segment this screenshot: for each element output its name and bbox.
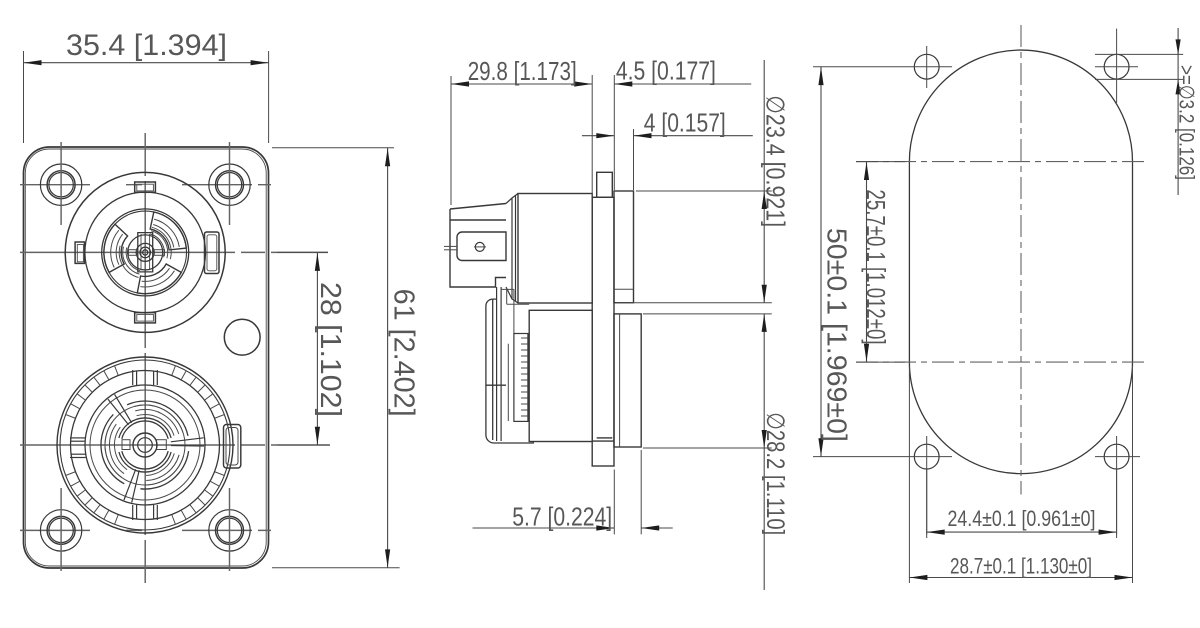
dim 28 arrows [315, 253, 320, 271]
svg-text:28.7±0.1 [1.130±0]: 28.7±0.1 [1.130±0] [950, 554, 1092, 579]
dim 61 extension lines [272, 147, 394, 149]
hole top-right [1095, 29, 1138, 103]
bottom connector latch 3h [224, 425, 241, 469]
dim 29.8 line [451, 83, 592, 85]
svg-text:35.4 [1.394]: 35.4 [1.394] [66, 29, 227, 62]
svg-text:61 [2.402]: 61 [2.402] [388, 289, 420, 417]
dim 35.4 arrows [24, 60, 42, 65]
svg-text:∅28.2 [1.110]: ∅28.2 [1.110] [761, 412, 789, 535]
svg-text:5.7 [0.224]: 5.7 [0.224] [512, 502, 612, 532]
hole bottom-left [813, 436, 952, 534]
dim Ø3.2 ext lines [1095, 53, 1183, 55]
stadium cutout [909, 50, 1132, 474]
svg-text:∅23.4 [0.921]: ∅23.4 [0.921] [761, 95, 789, 227]
svg-text:4 [0.157]: 4 [0.157] [644, 108, 726, 138]
bottom connector keyway 6h [133, 505, 158, 520]
screw hole bottom-left [40, 488, 81, 571]
top connector center fan arcs [119, 227, 171, 277]
upper body [518, 194, 592, 304]
top connector horizontal centerline [20, 251, 328, 253]
dim 4.5 line [614, 83, 751, 85]
ext line terminal tip [450, 76, 452, 205]
terminal block [450, 204, 506, 288]
dim 61 line [387, 148, 389, 568]
top connector pad upper-right [150, 212, 186, 250]
upper arc centerline [856, 161, 1148, 163]
top connector ring circle [85, 192, 206, 313]
top holes centerline [20, 184, 271, 186]
svg-text:29.8 [1.173]: 29.8 [1.173] [468, 56, 577, 86]
bottom connector hub arcs [119, 418, 171, 472]
bottom connector interrupted ring r44 [101, 401, 189, 489]
svg-text:24.4±0.1 [0.961±0]: 24.4±0.1 [0.961±0] [948, 506, 1096, 531]
top connector tab 12h [135, 182, 156, 192]
top connector tab 6h [135, 313, 156, 323]
front boss bottom (Ø28.2) [614, 314, 641, 447]
lower body inner step lines [501, 289, 529, 421]
mounting bracket [486, 299, 533, 443]
bottom connector spokes [108, 394, 204, 502]
top connector carrier circles [102, 209, 189, 296]
top connector tab 9h [75, 242, 84, 263]
dim 5.7 ext lines [613, 470, 615, 535]
dim 5.7 arrows [596, 525, 614, 530]
top connector latch 3h [205, 232, 220, 274]
svg-text:25.7±0.1 [1.012±0]: 25.7±0.1 [1.012±0] [861, 190, 891, 345]
bottom connector center circles [133, 433, 157, 457]
bottom connector arc bands [105, 405, 184, 485]
bottom connector hub notches [122, 440, 166, 450]
bottom connector outer circles [57, 357, 233, 533]
neck bar below terminal [497, 287, 502, 441]
bottom holes centerline [20, 529, 271, 531]
dim Ø28.2 line [763, 314, 765, 590]
dim 4.5 arrow [614, 81, 632, 86]
bottom connector keyway 9h [70, 438, 86, 458]
top connector pad left [104, 224, 128, 272]
lower body [529, 310, 592, 441]
dim Ø23.4 ext lines [636, 190, 772, 192]
dim 24.4 ext lines [926, 469, 928, 538]
dim 25.7 line [866, 162, 868, 363]
dim 4 arrows [596, 133, 614, 138]
bottom connector keyway 12h [133, 370, 158, 385]
dim 35.4 line [24, 62, 269, 64]
dim Ø23.4 arrows [762, 191, 767, 209]
top connector outer boss circle [65, 172, 225, 332]
dim 29.8 arrows [451, 81, 469, 86]
vertical centerline [144, 133, 146, 587]
hole bottom-right [1095, 436, 1140, 534]
dim Ø3.2 line + arrows [1177, 28, 1179, 195]
terminal screw [475, 242, 484, 251]
dim Ø28.2 arrows [762, 314, 767, 332]
dim 28.7 ext lines [908, 366, 910, 583]
dim 4 ext line boss right [633, 129, 635, 190]
top connector side notches [129, 250, 165, 256]
ext line flange right face [613, 75, 615, 190]
svg-text:>=∅3.2 [0.126]: >=∅3.2 [0.126] [1174, 65, 1197, 180]
front boss top (Ø23.4) [614, 191, 634, 303]
flange inner edge line (right) [25, 149, 266, 566]
screw hole top-right [209, 142, 250, 225]
dim 25.7 ext stubs [856, 161, 905, 163]
lower arc centerline [856, 361, 1148, 363]
flange plate outline [24, 147, 269, 568]
dim 24.4 line [927, 531, 1117, 533]
ext line flange left face [591, 75, 593, 196]
top connector center key cross [128, 233, 163, 272]
panel flange plate side [592, 172, 614, 466]
bottom connector serration ticks [66, 366, 225, 525]
dim 61 arrows [385, 148, 390, 166]
svg-text:28 [1.102]: 28 [1.102] [314, 282, 346, 417]
dim 5.7 line [473, 527, 615, 529]
dim 28 line [316, 252, 318, 445]
dim Ø23.4 line [763, 60, 765, 303]
screw hole top-left [40, 142, 81, 225]
hole top-left [813, 46, 952, 88]
upper body rear cap chamfers [506, 194, 518, 304]
dim 4 line [582, 135, 614, 137]
bottom connector ring r74.5 [71, 371, 220, 520]
svg-text:50±0.1 [1.969±0]: 50±0.1 [1.969±0] [822, 228, 853, 442]
dim 28.7 line [909, 577, 1132, 579]
bottom connector horizontal centerline [20, 444, 330, 446]
dim 50 line [820, 67, 822, 457]
dim 28 extension lines [277, 251, 328, 253]
bottom connector ring r60/55 [85, 385, 205, 505]
small side hole [224, 319, 260, 355]
hatched insert bar [514, 334, 528, 422]
dim 35.4 extension lines [23, 51, 25, 143]
dim Ø28.2 ext lines [643, 313, 772, 315]
top connector pad bottom [137, 264, 181, 294]
vertical centerline [1020, 25, 1022, 495]
terminal wire stubs [444, 245, 457, 247]
screw hole bottom-right [209, 488, 250, 571]
svg-text:4.5 [0.177]: 4.5 [0.177] [616, 56, 716, 86]
